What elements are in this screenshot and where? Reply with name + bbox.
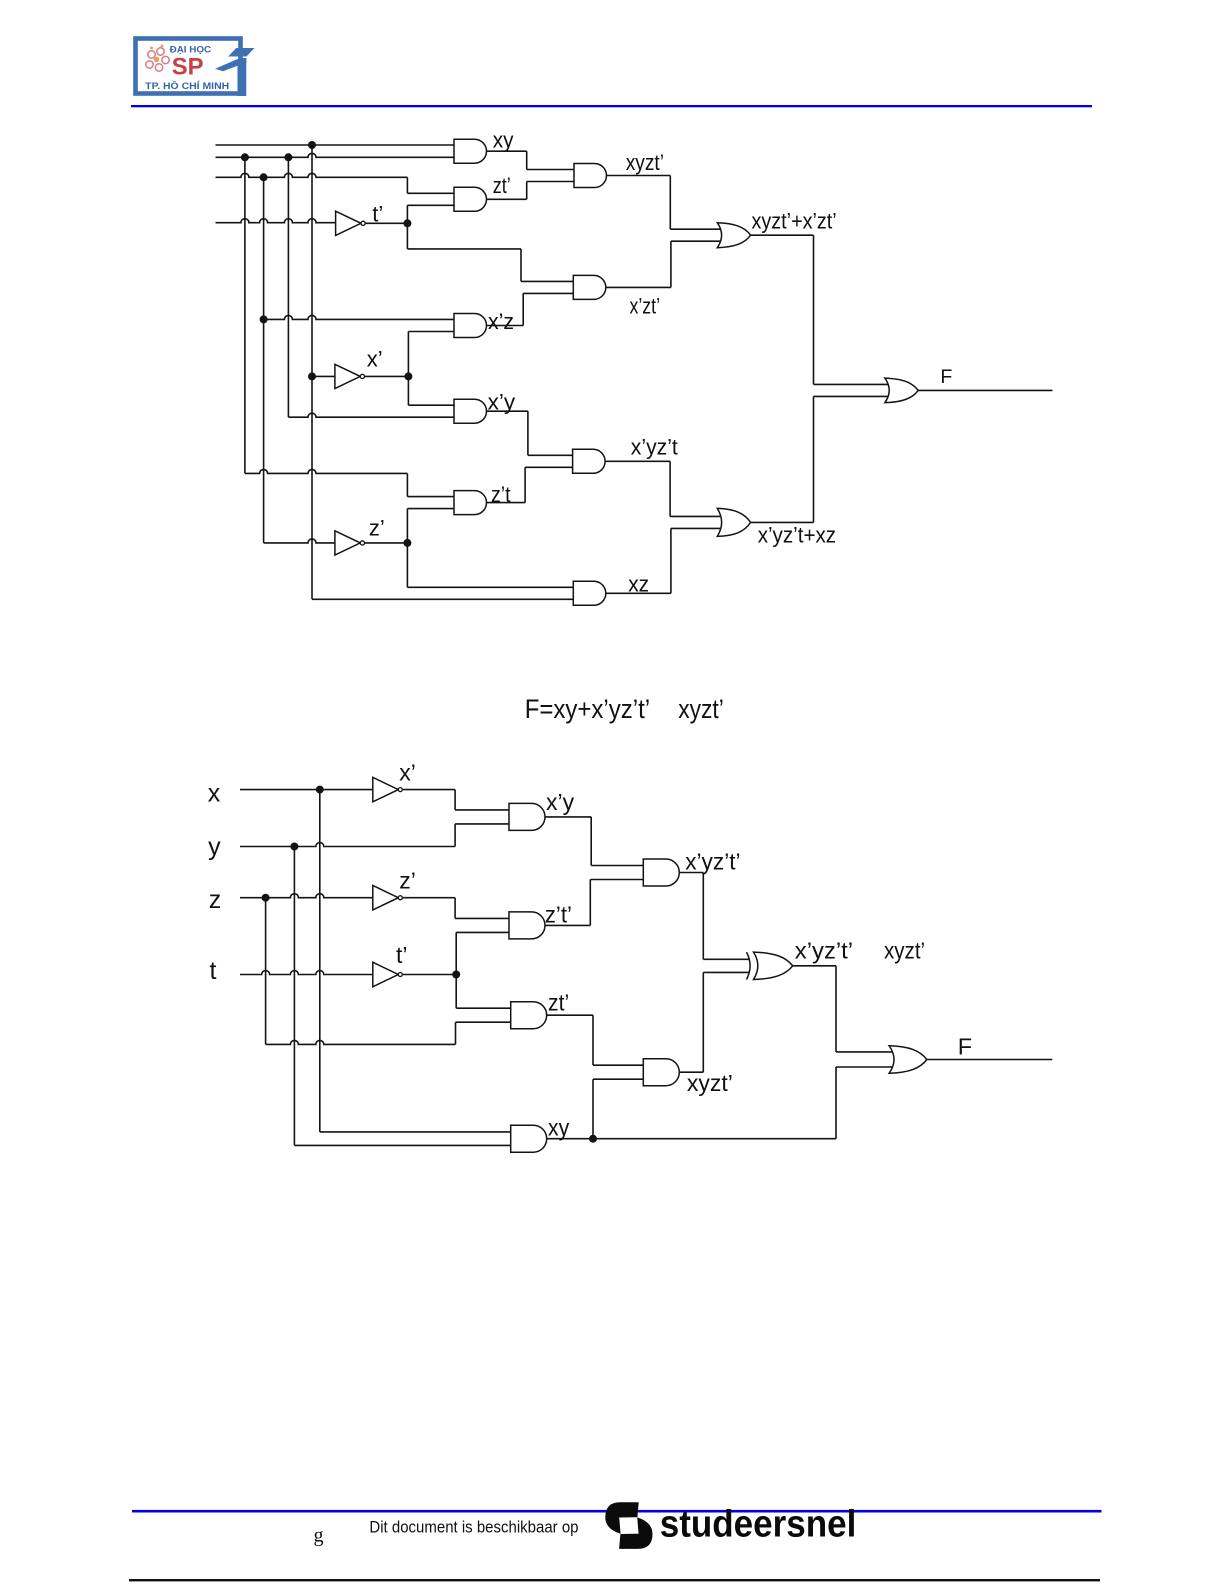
svg-text:Dit document is beschikbaar op: Dit document is beschikbaar op: [369, 1518, 578, 1537]
svg-text:xyzt’: xyzt’: [884, 938, 925, 964]
svg-text:xyzt’: xyzt’: [687, 1070, 733, 1096]
svg-text:x’: x’: [399, 760, 416, 786]
svg-text:TP. HỒ CHÍ MINH: TP. HỒ CHÍ MINH: [145, 80, 229, 91]
svg-text:x’y: x’y: [546, 789, 575, 815]
svg-text:x’zt’: x’zt’: [630, 294, 661, 319]
svg-text:SP: SP: [172, 54, 204, 81]
svg-text:xyzt’: xyzt’: [678, 694, 724, 724]
svg-text:xy: xy: [548, 1115, 570, 1141]
svg-text:t: t: [210, 957, 217, 985]
svg-text:F=xy+x’yz’t’: F=xy+x’yz’t’: [525, 694, 650, 724]
svg-text:t’: t’: [396, 942, 408, 968]
svg-text:x’: x’: [367, 347, 383, 372]
svg-text:g: g: [314, 1525, 324, 1547]
svg-text:t’: t’: [372, 202, 383, 227]
svg-text:z: z: [209, 886, 222, 914]
svg-text:x’yz’t: x’yz’t: [631, 435, 678, 460]
svg-text:z’: z’: [369, 516, 385, 541]
svg-text:x’yz’t+xz: x’yz’t+xz: [758, 523, 836, 548]
svg-text:z’t’: z’t’: [545, 902, 572, 928]
svg-text:xz: xz: [628, 572, 649, 597]
svg-text:x’yz’t’: x’yz’t’: [685, 849, 740, 875]
svg-text:studeersnel: studeersnel: [660, 1503, 857, 1545]
svg-text:zt’: zt’: [493, 173, 511, 198]
svg-text:F: F: [940, 366, 952, 388]
svg-text:xyzt’: xyzt’: [626, 150, 664, 175]
svg-text:x’y: x’y: [488, 390, 516, 415]
svg-text:xy: xy: [493, 128, 514, 153]
svg-text:x’yz’t’: x’yz’t’: [795, 938, 853, 964]
svg-text:x: x: [208, 780, 221, 808]
svg-text:x’z: x’z: [488, 309, 514, 334]
svg-text:F: F: [958, 1033, 972, 1059]
svg-text:z’t: z’t: [491, 482, 511, 507]
svg-text:zt’: zt’: [548, 990, 569, 1016]
svg-text:xyzt’+x’zt’: xyzt’+x’zt’: [752, 209, 837, 234]
svg-text:y: y: [208, 833, 221, 861]
svg-text:z’: z’: [399, 868, 416, 894]
